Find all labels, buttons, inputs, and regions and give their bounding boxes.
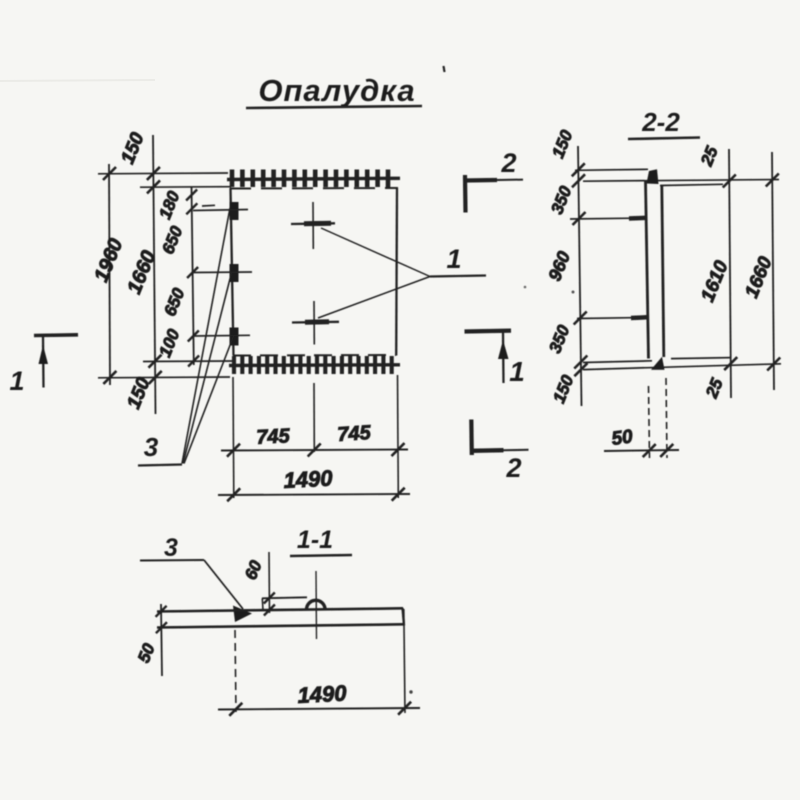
leader to middle connector bbox=[183, 271, 232, 464]
dim 60 line bbox=[268, 552, 271, 613]
svg-text:1: 1 bbox=[446, 244, 461, 274]
svg-text:2: 2 bbox=[500, 148, 516, 178]
marker 2 bottom: thin tail bbox=[504, 449, 529, 451]
plate top line bbox=[157, 608, 403, 611]
stray dot 2 bbox=[409, 690, 412, 693]
extension middle below plan bbox=[313, 383, 315, 452]
leader to bottom connector bbox=[184, 335, 234, 464]
board left edge (2-2) bbox=[646, 181, 649, 359]
stray mark near title bbox=[444, 66, 445, 72]
label 1 leader horizontal bbox=[430, 276, 486, 277]
svg-text:3: 3 bbox=[164, 534, 178, 562]
marker 1 mid: horizontal bar bbox=[465, 329, 512, 334]
dim line 150/1660/150 bbox=[153, 135, 156, 414]
board top wedge (2-2) bbox=[647, 169, 659, 184]
dim 50 line (1-1) bbox=[161, 604, 162, 676]
center mark lower: horizontal bbox=[292, 321, 339, 324]
small step mark above top connector line bbox=[202, 204, 215, 207]
marker 2 bottom: horizontal bar bbox=[471, 448, 504, 453]
stray dot 3 bbox=[524, 286, 527, 289]
marker 1 left: shaft bbox=[42, 337, 45, 388]
connector clamp top bbox=[230, 202, 239, 220]
extension right below plan bbox=[397, 375, 400, 498]
extension bottom long (2-2) bbox=[583, 364, 781, 370]
connector extension line top bbox=[193, 210, 248, 211]
extension top inner bbox=[140, 186, 231, 189]
svg-text:1-1: 1-1 bbox=[297, 526, 333, 554]
center mark upper: horizontal bbox=[291, 222, 335, 225]
leader upper cross to label 1 bbox=[321, 228, 430, 277]
marker 2 top: vertical bar bbox=[463, 175, 468, 213]
stray dot 1 bbox=[572, 291, 575, 294]
label 3 leader underline bbox=[140, 559, 204, 562]
marker 2 top: horizontal bar bbox=[464, 178, 497, 183]
svg-text:2: 2 bbox=[505, 453, 521, 483]
center mark upper: thick mid bbox=[304, 221, 331, 227]
svg-text:1: 1 bbox=[509, 356, 525, 387]
bottom right short line (2-2) bbox=[671, 358, 731, 359]
center mark lower: vertical bbox=[313, 301, 315, 345]
marker 2 bottom: vertical bar bbox=[469, 420, 474, 456]
dim line 1960 bbox=[109, 164, 110, 385]
marker 1 mid: arrowhead bbox=[498, 340, 509, 359]
title 2-2 underline bbox=[628, 138, 700, 140]
extension bottom outer bbox=[98, 376, 230, 379]
plate right end cap bbox=[403, 608, 405, 626]
extension left below plan bbox=[232, 377, 235, 498]
extension at 350 lower bbox=[577, 317, 634, 320]
1490 extension left (1-1) bbox=[235, 630, 236, 712]
marker 1 left: horizontal bar bbox=[34, 333, 78, 337]
title 1-1 underline bbox=[290, 555, 352, 556]
center line (1-1) bbox=[315, 571, 318, 639]
connector clamp bottom bbox=[230, 328, 239, 346]
connector clamp middle bbox=[230, 264, 239, 282]
dim line 1490 (1-1) bbox=[218, 708, 420, 710]
extension bottom inner (2-2) bbox=[583, 361, 652, 363]
dim line 745+745 bbox=[221, 450, 408, 451]
title underline bbox=[246, 106, 422, 108]
svg-text:1490: 1490 bbox=[297, 680, 348, 708]
plan right edge bbox=[395, 188, 398, 356]
plan bottom comb line bbox=[229, 363, 400, 367]
marker 1 mid: shaft bbox=[502, 332, 505, 383]
svg-text:50: 50 bbox=[610, 426, 634, 450]
extension bottom inner bbox=[143, 360, 233, 363]
dim line 50 (2-2) bbox=[604, 450, 679, 451]
rib left drop bbox=[261, 598, 264, 610]
leader to top connector bbox=[182, 208, 230, 464]
svg-text:745: 745 bbox=[337, 422, 373, 446]
svg-text:1490: 1490 bbox=[283, 465, 334, 493]
connector extension line bottom bbox=[193, 334, 250, 337]
leader lower cross to label 1 bbox=[318, 277, 430, 319]
label 3 arrowhead bbox=[233, 606, 252, 623]
dim line 1660 bbox=[772, 152, 774, 390]
svg-text:1: 1 bbox=[9, 366, 24, 396]
2-2 left dim line bbox=[578, 146, 582, 406]
svg-text:2-2: 2-2 bbox=[641, 107, 680, 137]
dim line 1490 bbox=[218, 494, 410, 495]
label 3 leader diagonal bbox=[204, 560, 243, 609]
plan bottom comb teeth bbox=[232, 356, 236, 374]
rib top line bbox=[262, 597, 307, 598]
plan top comb teeth bbox=[230, 170, 235, 188]
second top flange line bbox=[660, 184, 723, 185]
50 extension left (2-2) bbox=[649, 386, 650, 458]
plan top edge (dashed) bbox=[230, 187, 398, 190]
plan bottom edge (dashed) bbox=[233, 354, 396, 357]
faint scan streak bbox=[0, 80, 155, 81]
plate bottom line bbox=[157, 624, 403, 627]
extension to top wedge bbox=[575, 169, 648, 170]
dim line 180/650/650/100 bbox=[192, 187, 194, 365]
board bottom wedge (2-2) bbox=[651, 357, 665, 370]
extension long top bbox=[583, 180, 779, 182]
50 extension right (2-2) bbox=[666, 378, 667, 458]
extension at 350 upper bbox=[570, 217, 633, 220]
1490 extension right (1-1) bbox=[404, 609, 405, 713]
label 3 underline bbox=[138, 465, 182, 466]
bold stub upper bbox=[629, 216, 646, 221]
marker 2 top: thin tail bbox=[497, 179, 523, 181]
center mark upper: vertical bbox=[312, 202, 314, 249]
board right edge (2-2) bbox=[662, 185, 664, 357]
center mark lower: thick mid bbox=[305, 319, 329, 325]
svg-text:Опалудка: Опалудка bbox=[258, 73, 415, 108]
marker 1 left: arrowhead bbox=[39, 345, 49, 364]
svg-text:3: 3 bbox=[144, 432, 159, 462]
plan top comb line bbox=[227, 178, 400, 179]
plan left edge bbox=[231, 188, 234, 356]
bump arc bbox=[307, 600, 326, 609]
svg-text:745: 745 bbox=[256, 425, 291, 449]
connector extension line middle bbox=[193, 271, 252, 274]
dim line 1610 bbox=[729, 149, 731, 398]
bold stub lower bbox=[631, 315, 647, 320]
extension top outer bbox=[98, 172, 228, 175]
